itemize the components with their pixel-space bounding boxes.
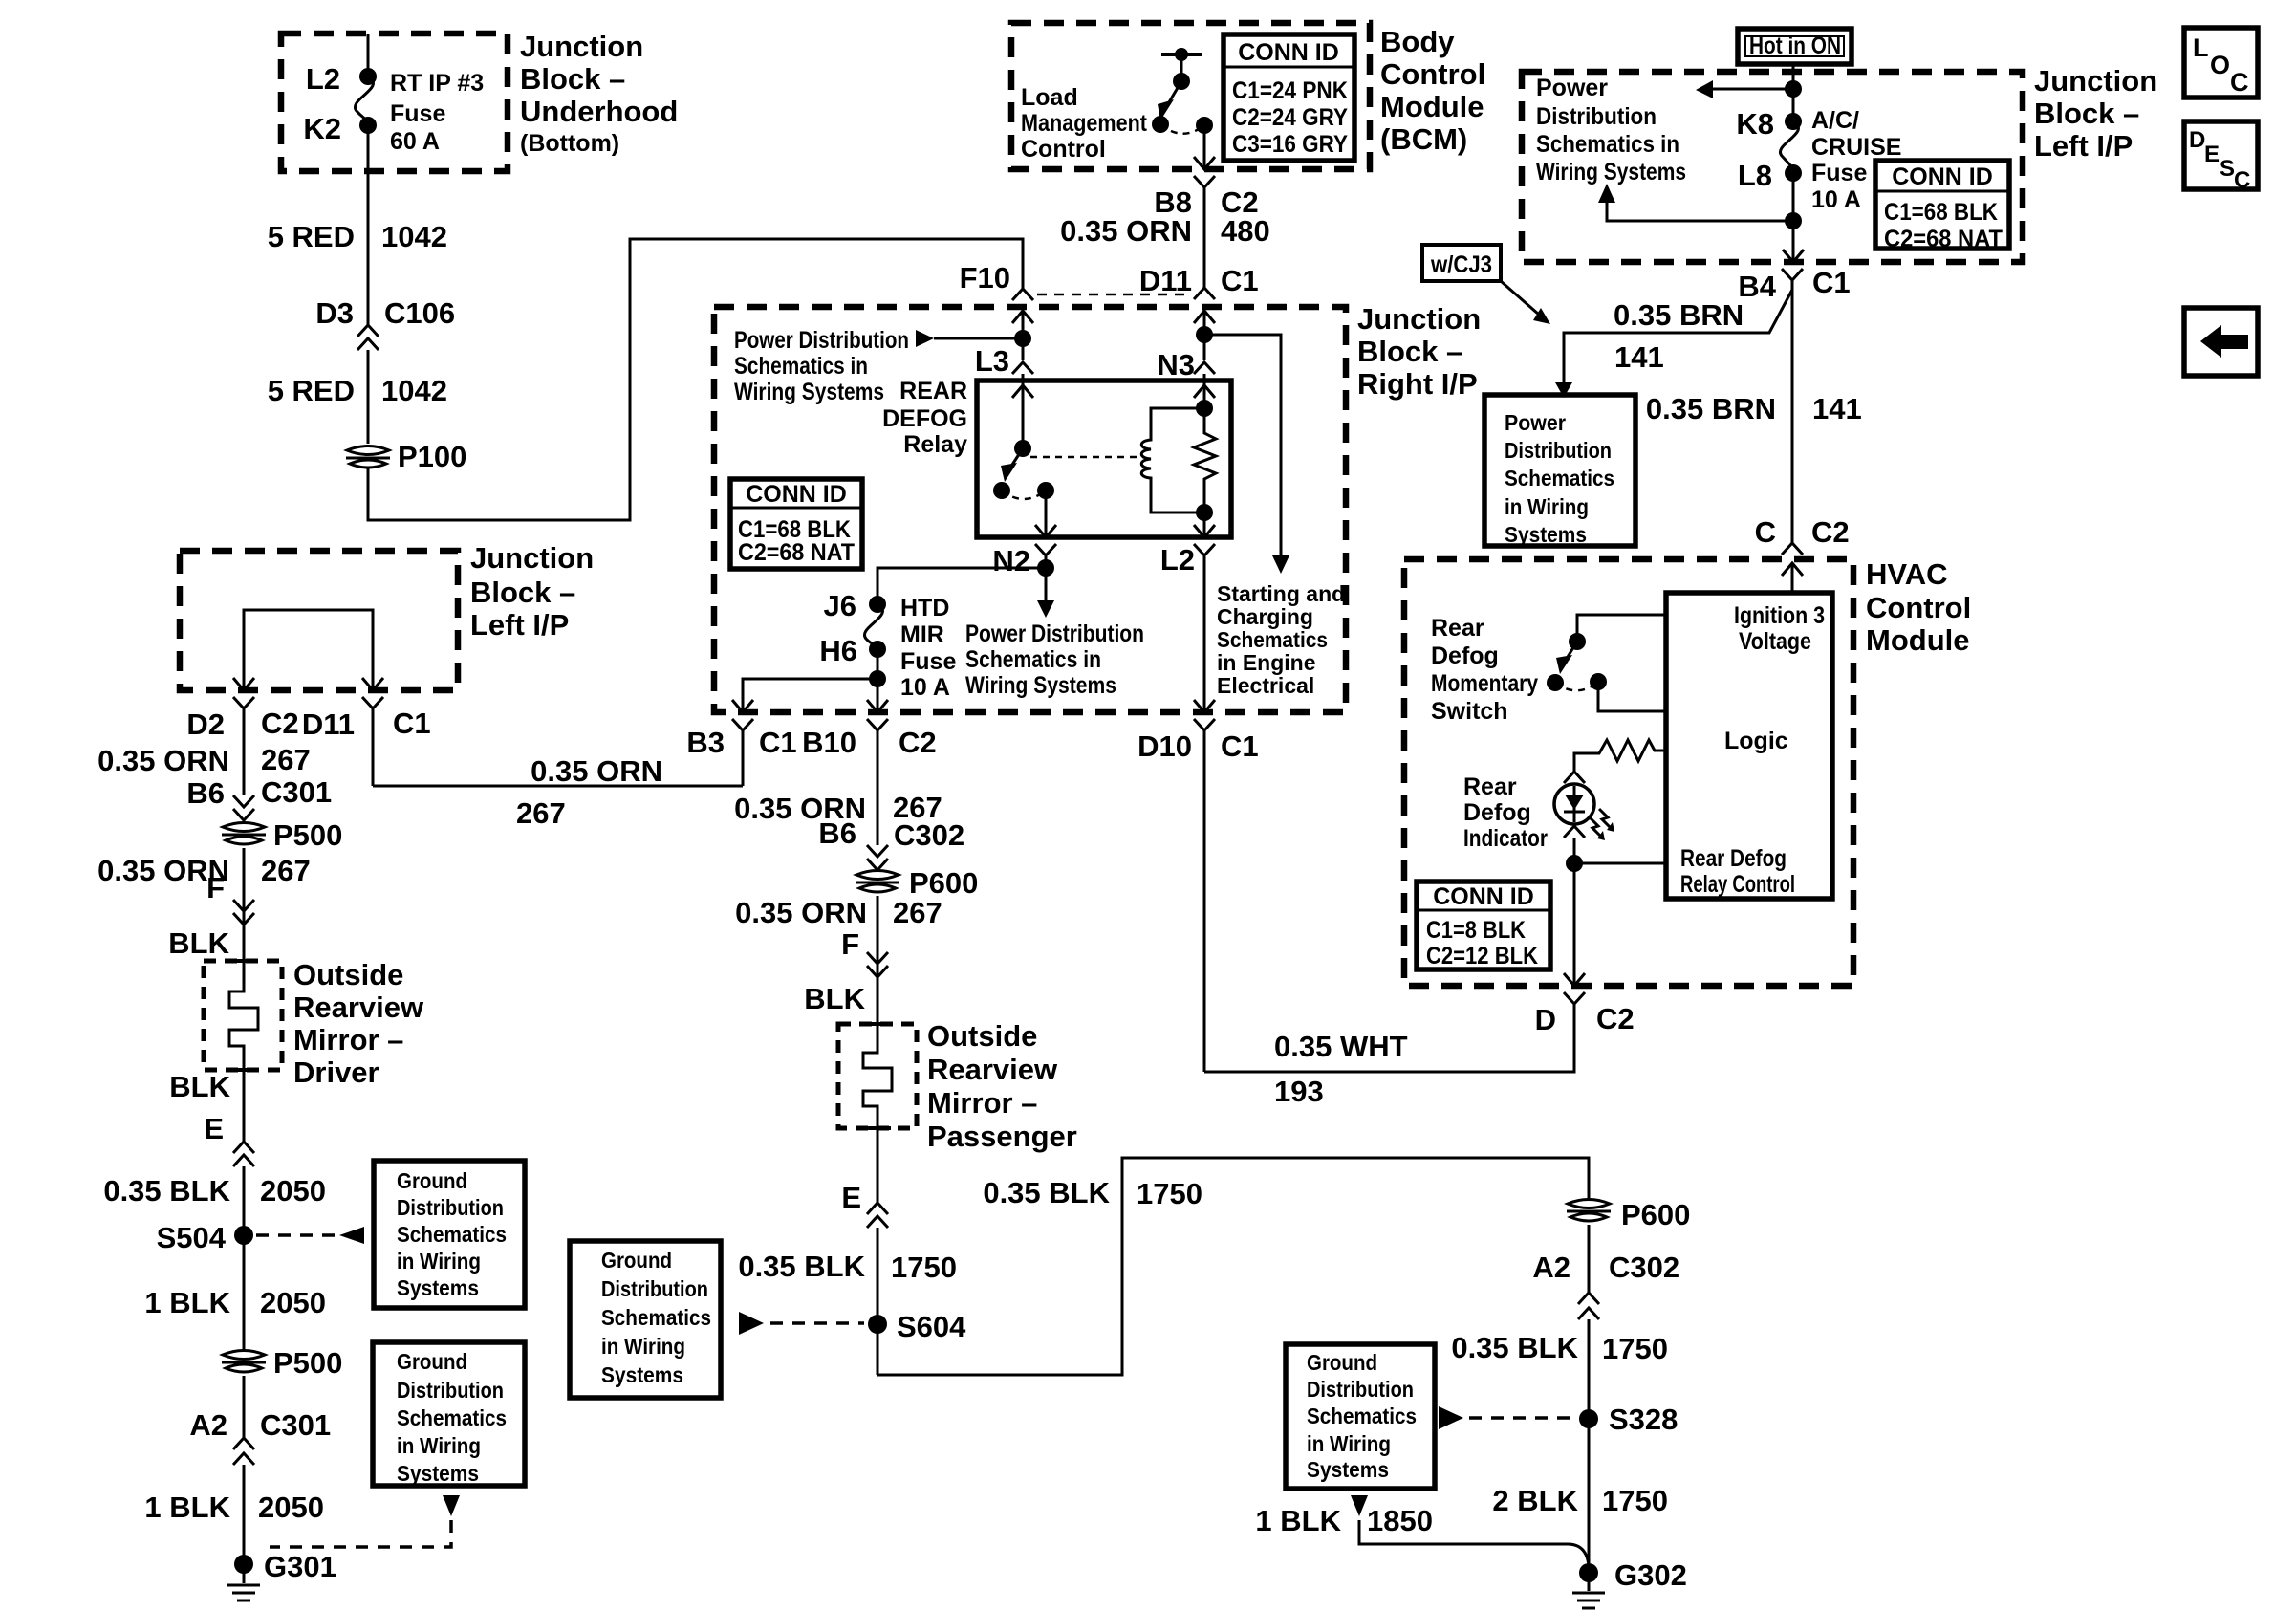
grommet P600	[856, 866, 978, 1024]
svg-text:Systems: Systems	[1307, 1457, 1389, 1482]
svg-text:Schematics in: Schematics in	[965, 646, 1101, 673]
svg-text:D: D	[1535, 1003, 1556, 1036]
svg-text:C1: C1	[759, 726, 797, 759]
svg-text:Underhood: Underhood	[520, 95, 678, 128]
svg-text:D2: D2	[186, 708, 225, 741]
svg-text:N3: N3	[1157, 348, 1195, 381]
svg-text:B6: B6	[818, 816, 856, 850]
title junction block right I/P	[1357, 302, 1481, 401]
grommet P100	[346, 440, 466, 473]
svg-text:Body: Body	[1380, 25, 1455, 58]
svg-text:Power Distribution: Power Distribution	[734, 327, 909, 354]
svg-text:0.35 BRN: 0.35 BRN	[1646, 392, 1776, 425]
wire 0.35 WHT 193	[1204, 1004, 1574, 1108]
connector B8/C2 fork	[1154, 176, 1258, 288]
svg-text:MIR: MIR	[900, 621, 944, 648]
connector A2/C301	[144, 1408, 331, 1564]
svg-text:267: 267	[261, 743, 311, 776]
svg-text:Logic: Logic	[1724, 728, 1788, 754]
w/CJ3 callout	[1422, 245, 1550, 324]
svg-text:Wiring Systems: Wiring Systems	[734, 379, 884, 405]
svg-text:Schematics: Schematics	[1505, 466, 1614, 490]
svg-text:0.35 ORN: 0.35 ORN	[1060, 214, 1192, 248]
connector B10/C2 below right IP	[802, 719, 937, 845]
hot in ON box	[1738, 29, 1852, 64]
svg-text:P500: P500	[273, 818, 342, 852]
svg-text:Hot in ON: Hot in ON	[1749, 33, 1841, 59]
fuse RT IP #3 60A	[303, 34, 484, 155]
svg-text:C1=24 PNK: C1=24 PNK	[1232, 77, 1348, 104]
splice S604	[739, 1310, 966, 1343]
svg-text:REAR: REAR	[899, 378, 967, 404]
svg-text:0.35 ORN: 0.35 ORN	[97, 744, 229, 777]
svg-text:CONN ID: CONN ID	[746, 481, 847, 508]
svg-text:Electrical: Electrical	[1217, 673, 1314, 698]
svg-text:C1: C1	[1221, 264, 1259, 297]
svg-text:S504: S504	[157, 1221, 227, 1254]
ground distribution box (S604)	[570, 1241, 721, 1398]
wire 0.35 BRN 141 branch to power dist box	[1555, 290, 1792, 398]
svg-text:E: E	[841, 1181, 861, 1214]
REAR DEFOG relay box	[882, 378, 1231, 537]
svg-text:K2: K2	[303, 112, 341, 145]
rear defog momentary switch	[1431, 615, 1666, 725]
svg-text:C1: C1	[1221, 729, 1259, 763]
svg-text:0.35 ORN: 0.35 ORN	[735, 896, 867, 929]
svg-text:C1: C1	[1812, 266, 1851, 299]
svg-text:BLK: BLK	[168, 926, 229, 960]
svg-text:RT IP #3: RT IP #3	[390, 70, 484, 97]
svg-text:C301: C301	[260, 1408, 331, 1442]
svg-text:L2: L2	[1160, 543, 1195, 577]
svg-text:in Wiring: in Wiring	[601, 1334, 685, 1359]
svg-text:10 A: 10 A	[1811, 186, 1861, 213]
svg-text:141: 141	[1614, 340, 1664, 374]
outside rearview mirror passenger dashed box	[838, 1019, 1077, 1153]
svg-text:C2: C2	[261, 707, 299, 740]
svg-text:A2: A2	[1532, 1251, 1570, 1284]
HTD MIR fuse chain	[732, 568, 1046, 712]
relay coil and resistor	[1141, 381, 1216, 537]
wire 0.35 BRN 141 down to HVAC	[1646, 280, 1862, 593]
wire 5 RED 1042 down from fuse	[268, 125, 447, 325]
svg-text:Schematics: Schematics	[1217, 627, 1328, 652]
splice S328	[1439, 1403, 1678, 1436]
svg-text:in Wiring: in Wiring	[1307, 1431, 1391, 1456]
L2 connector below relay	[1160, 543, 1215, 696]
branch with up arrow	[1598, 173, 1804, 262]
svg-text:Starting and: Starting and	[1217, 581, 1345, 606]
svg-text:Distribution: Distribution	[1307, 1377, 1414, 1402]
svg-text:Ground: Ground	[1307, 1350, 1377, 1375]
svg-text:Right I/P: Right I/P	[1357, 367, 1478, 401]
svg-text:141: 141	[1812, 392, 1862, 425]
svg-text:Fuse: Fuse	[900, 648, 956, 675]
svg-text:(BCM): (BCM)	[1380, 122, 1467, 156]
svg-text:H6: H6	[819, 634, 857, 667]
svg-text:Fuse: Fuse	[1811, 160, 1867, 186]
svg-text:F: F	[206, 871, 225, 904]
CONN ID table (right IP)	[730, 479, 862, 569]
connector C106 (D3) double chevron	[315, 296, 455, 350]
svg-text:Distribution: Distribution	[1536, 103, 1657, 130]
wire from hot in ON	[1696, 64, 1802, 121]
svg-text:E: E	[2204, 142, 2220, 167]
svg-text:Left I/P: Left I/P	[470, 608, 569, 642]
svg-text:5 RED: 5 RED	[268, 374, 355, 407]
F10 connector fork into Right IP	[960, 261, 1190, 360]
svg-text:in Wiring: in Wiring	[397, 1249, 481, 1274]
logic box	[1666, 593, 1832, 899]
svg-text:in Wiring: in Wiring	[1505, 494, 1589, 519]
labels 0.35 ORN 267 / B6 C302	[734, 791, 964, 870]
svg-text:P600: P600	[909, 866, 978, 900]
ground distribution box (S328)	[1286, 1344, 1435, 1516]
wire 0.35 ORN 267 long horizontal to B3	[373, 754, 743, 830]
svg-text:2 BLK: 2 BLK	[1492, 1484, 1578, 1517]
svg-text:Schematics: Schematics	[601, 1305, 711, 1330]
svg-text:Relay: Relay	[903, 431, 967, 458]
svg-text:Mirror –: Mirror –	[927, 1086, 1037, 1120]
svg-text:D3: D3	[315, 296, 354, 330]
power distribution text (left IP)	[1536, 75, 1686, 185]
svg-text:Distribution: Distribution	[601, 1276, 708, 1301]
svg-text:Rear: Rear	[1431, 615, 1484, 642]
labels below P600	[735, 896, 942, 1015]
svg-text:1042: 1042	[381, 220, 447, 253]
svg-text:C1: C1	[393, 707, 431, 740]
svg-text:C2=68 NAT: C2=68 NAT	[738, 539, 855, 566]
connector D11/C1 fork into Right IP	[1194, 288, 1215, 359]
svg-text:Junction: Junction	[520, 30, 643, 63]
branch to starting and charging	[1204, 335, 1345, 698]
connector D11/C1 (left IP)	[302, 697, 431, 786]
LOC icon	[2184, 28, 2258, 98]
svg-text:1750: 1750	[1137, 1177, 1202, 1210]
grommet P500	[222, 818, 342, 961]
driver column labels 0.35 ORN 267 / B6 C301	[97, 743, 332, 820]
svg-text:B6: B6	[186, 776, 225, 810]
svg-text:C: C	[2230, 68, 2249, 97]
svg-text:Left I/P: Left I/P	[2034, 129, 2133, 163]
svg-text:Outside: Outside	[293, 958, 403, 991]
svg-text:2050: 2050	[260, 1174, 326, 1208]
svg-text:C2: C2	[1596, 1002, 1635, 1035]
BCM dashed box	[1011, 23, 1370, 169]
svg-text:Ground: Ground	[397, 1349, 467, 1374]
svg-text:Schematics: Schematics	[397, 1405, 507, 1430]
svg-text:O: O	[2210, 51, 2230, 79]
svg-text:1 BLK: 1 BLK	[1255, 1504, 1341, 1537]
labels 0.35 ORN 267 F below P500	[97, 854, 311, 960]
svg-text:Block –: Block –	[470, 576, 575, 609]
connector D2/C2	[186, 697, 298, 795]
svg-text:S328: S328	[1609, 1403, 1678, 1436]
connector D/C2 exit	[1535, 973, 1635, 1036]
svg-text:Fuse: Fuse	[390, 100, 445, 127]
svg-text:60 A: 60 A	[390, 128, 440, 155]
wire S604 to right column riser	[877, 1158, 1589, 1375]
power distribution schematics box	[1484, 395, 1635, 547]
svg-text:Relay Control: Relay Control	[1680, 871, 1795, 898]
svg-text:Mirror –: Mirror –	[293, 1023, 403, 1056]
svg-text:Junction: Junction	[470, 541, 594, 575]
connector D10/C1 below right IP	[1137, 696, 1259, 1072]
svg-text:B3: B3	[686, 726, 725, 759]
title Junction Block Underhood (Bottom)	[520, 30, 678, 157]
svg-text:1042: 1042	[381, 374, 447, 407]
svg-text:C302: C302	[894, 818, 964, 852]
svg-text:2050: 2050	[258, 1491, 324, 1524]
junction block underhood dashed box	[281, 33, 508, 171]
svg-text:L: L	[2193, 33, 2209, 62]
svg-text:D10: D10	[1137, 729, 1192, 763]
CONN ID table (BCM)	[1224, 34, 1354, 161]
svg-text:C2: C2	[1811, 515, 1850, 549]
ground distribution box (G301)	[270, 1342, 525, 1547]
svg-text:Rearview: Rearview	[927, 1053, 1058, 1086]
power distribution pointer (upper left in box)	[734, 327, 1031, 405]
svg-text:Passenger: Passenger	[927, 1120, 1077, 1153]
wire from P100 to F10	[368, 239, 1023, 520]
connector A2/C302	[1451, 1251, 1679, 1573]
svg-text:Outside: Outside	[927, 1019, 1037, 1053]
wire 5 RED 1042 lower	[268, 350, 447, 444]
fuse A/C CRUISE 10A	[1736, 107, 1901, 213]
svg-text:DEFOG: DEFOG	[882, 405, 967, 432]
wire 1 BLK 1850	[1255, 1504, 1589, 1566]
svg-text:Power: Power	[1505, 410, 1566, 435]
svg-text:F10: F10	[960, 261, 1010, 294]
svg-text:F: F	[841, 927, 859, 961]
svg-text:193: 193	[1274, 1075, 1324, 1108]
svg-text:B10: B10	[802, 726, 856, 759]
svg-text:Junction: Junction	[2034, 64, 2157, 98]
svg-text:S: S	[2220, 156, 2235, 182]
svg-text:1 BLK: 1 BLK	[144, 1286, 230, 1319]
title junction block left I/P	[2034, 64, 2157, 163]
svg-text:B4: B4	[1738, 270, 1776, 303]
svg-text:L3: L3	[975, 344, 1009, 378]
resistor and rear defog indicator	[1463, 740, 1666, 986]
svg-text:C3=16 GRY: C3=16 GRY	[1232, 131, 1348, 158]
svg-text:Switch: Switch	[1431, 698, 1508, 725]
svg-text:CRUISE: CRUISE	[1811, 134, 1901, 161]
svg-text:Block –: Block –	[1357, 335, 1462, 368]
svg-text:Defog: Defog	[1463, 799, 1531, 826]
svg-text:1750: 1750	[1602, 1332, 1668, 1365]
svg-text:Schematics: Schematics	[1307, 1404, 1417, 1428]
svg-text:HVAC: HVAC	[1866, 557, 1948, 591]
wire D11 to relay, N3 connector	[1157, 311, 1215, 381]
svg-text:1750: 1750	[891, 1251, 957, 1284]
svg-text:CONN ID: CONN ID	[1892, 163, 1993, 190]
BCM exit wire B8	[1194, 125, 1215, 169]
svg-text:CONN ID: CONN ID	[1238, 39, 1339, 66]
CONN ID table (HVAC)	[1417, 882, 1550, 969]
svg-text:Module: Module	[1380, 90, 1484, 123]
svg-text:C302: C302	[1609, 1251, 1679, 1284]
load management control switch	[1021, 48, 1213, 163]
svg-text:Schematics: Schematics	[397, 1222, 507, 1247]
svg-text:P100: P100	[398, 440, 466, 473]
svg-text:Schematics in: Schematics in	[734, 353, 868, 380]
svg-text:0.35 BLK: 0.35 BLK	[1451, 1331, 1578, 1364]
ground G301	[227, 1550, 336, 1600]
svg-text:L2: L2	[306, 62, 340, 96]
svg-text:Wiring Systems: Wiring Systems	[1536, 159, 1686, 185]
svg-text:1850: 1850	[1367, 1504, 1433, 1537]
svg-text:Power Distribution: Power Distribution	[965, 620, 1144, 647]
svg-text:S604: S604	[897, 1310, 966, 1343]
svg-text:in Wiring: in Wiring	[397, 1433, 481, 1458]
svg-text:Ground: Ground	[397, 1168, 467, 1193]
svg-text:P500: P500	[273, 1346, 342, 1380]
junction block left I/P dashed box	[1522, 72, 2023, 262]
svg-text:Module: Module	[1866, 623, 1970, 657]
svg-text:267: 267	[893, 896, 942, 929]
svg-text:C: C	[1755, 515, 1776, 549]
HVAC dashed box	[1404, 559, 1853, 986]
svg-text:CONN ID: CONN ID	[1433, 883, 1534, 910]
svg-text:0.35 BLK: 0.35 BLK	[983, 1176, 1110, 1209]
svg-text:1 BLK: 1 BLK	[144, 1491, 230, 1524]
label 2 BLK 1750	[1492, 1484, 1668, 1517]
title Body Control Module (BCM)	[1380, 25, 1485, 156]
svg-text:Rear: Rear	[1463, 773, 1517, 800]
svg-text:K8: K8	[1736, 107, 1774, 141]
svg-text:Defog: Defog	[1431, 642, 1499, 669]
svg-text:Charging: Charging	[1217, 604, 1313, 629]
svg-text:5 RED: 5 RED	[268, 220, 355, 253]
svg-text:in Engine: in Engine	[1217, 650, 1316, 675]
wire below driver mirror	[103, 1070, 326, 1351]
svg-text:Block –: Block –	[2034, 97, 2139, 130]
connector B3/C1 below right IP	[686, 719, 796, 786]
outside rearview mirror driver dashed box	[204, 958, 424, 1089]
svg-text:HTD: HTD	[900, 595, 949, 621]
svg-text:Block –: Block –	[520, 62, 625, 96]
heater element driver	[229, 961, 258, 1070]
svg-text:0.35 WHT: 0.35 WHT	[1274, 1030, 1408, 1063]
svg-text:Momentary: Momentary	[1431, 670, 1538, 697]
svg-text:Voltage: Voltage	[1739, 628, 1811, 655]
svg-text:L8: L8	[1738, 159, 1772, 192]
svg-text:267: 267	[261, 854, 311, 887]
svg-text:C2=24 GRY: C2=24 GRY	[1232, 104, 1348, 131]
svg-text:Control: Control	[1866, 591, 1971, 624]
svg-text:Systems: Systems	[397, 1275, 479, 1300]
svg-text:2050: 2050	[260, 1286, 326, 1319]
label 1 BLK 2050	[144, 1286, 326, 1319]
svg-text:Rear Defog: Rear Defog	[1680, 845, 1787, 872]
svg-text:C106: C106	[384, 296, 455, 330]
svg-text:(Bottom): (Bottom)	[520, 130, 619, 157]
ground distribution box (S504)	[374, 1161, 525, 1308]
svg-text:Distribution: Distribution	[1505, 438, 1612, 463]
N2 connector below relay	[965, 544, 1144, 699]
wire F10 to relay, L3 connector	[975, 311, 1033, 381]
svg-text:A/C/: A/C/	[1811, 107, 1859, 134]
svg-text:Junction: Junction	[1357, 302, 1481, 336]
svg-text:Wiring Systems: Wiring Systems	[965, 672, 1116, 699]
internal bus wire	[233, 610, 383, 690]
svg-text:G302: G302	[1614, 1558, 1687, 1592]
svg-text:w/CJ3: w/CJ3	[1430, 251, 1492, 278]
svg-text:C2=12 BLK: C2=12 BLK	[1426, 943, 1538, 969]
svg-text:Driver: Driver	[293, 1056, 379, 1089]
junction block left I/P dashed box (left)	[180, 551, 458, 690]
svg-text:Systems: Systems	[397, 1461, 479, 1486]
svg-text:D11: D11	[1139, 264, 1192, 297]
svg-text:Ground: Ground	[601, 1248, 672, 1273]
svg-text:E: E	[204, 1112, 224, 1145]
grommet P600 (right)	[1567, 1198, 1690, 1293]
svg-text:10 A: 10 A	[900, 674, 950, 701]
svg-text:Rearview: Rearview	[293, 991, 424, 1024]
svg-text:C2=68 NAT: C2=68 NAT	[1884, 226, 2003, 252]
svg-text:Distribution: Distribution	[397, 1195, 504, 1220]
wire below passenger mirror	[738, 1128, 957, 1375]
svg-text:Systems: Systems	[601, 1362, 683, 1387]
back arrow icon	[2184, 308, 2258, 376]
svg-text:Distribution: Distribution	[397, 1378, 504, 1403]
svg-text:J6: J6	[824, 589, 856, 622]
svg-text:1750: 1750	[1602, 1484, 1668, 1517]
svg-text:G301: G301	[264, 1550, 336, 1583]
CONN ID table (left IP)	[1875, 161, 2009, 252]
svg-text:A2: A2	[189, 1408, 227, 1442]
svg-text:D11: D11	[302, 708, 355, 741]
title	[1866, 557, 1971, 657]
splice S504	[157, 1221, 364, 1254]
DESC icon	[2184, 121, 2258, 193]
svg-text:267: 267	[516, 796, 566, 830]
svg-text:C: C	[2234, 167, 2250, 193]
svg-text:C2: C2	[899, 726, 937, 759]
svg-text:480: 480	[1221, 214, 1270, 248]
svg-text:0.35 BLK: 0.35 BLK	[738, 1250, 865, 1283]
svg-text:D: D	[2189, 127, 2205, 153]
svg-text:N2: N2	[992, 544, 1030, 577]
svg-text:BLK: BLK	[169, 1070, 230, 1103]
svg-text:Control: Control	[1021, 136, 1106, 163]
svg-text:0.35 ORN: 0.35 ORN	[531, 754, 662, 788]
svg-text:C301: C301	[261, 775, 332, 809]
svg-text:C1=8 BLK: C1=8 BLK	[1426, 917, 1526, 944]
title	[470, 541, 594, 642]
svg-text:Load: Load	[1021, 84, 1078, 111]
svg-text:Systems: Systems	[1505, 522, 1587, 547]
svg-text:Management: Management	[1021, 110, 1148, 137]
junction block right I/P dashed box	[714, 307, 1346, 712]
svg-text:0.35 BRN: 0.35 BRN	[1614, 298, 1744, 332]
svg-text:C1=68 BLK: C1=68 BLK	[1884, 199, 1998, 226]
heater element passenger	[863, 1024, 892, 1128]
svg-text:BLK: BLK	[804, 982, 865, 1015]
connector B4/C1 fork	[1738, 266, 1850, 303]
wire 0.35 ORN 480	[1060, 214, 1270, 297]
svg-text:Ignition 3: Ignition 3	[1734, 602, 1825, 629]
relay switch	[993, 381, 1143, 537]
svg-text:Schematics in: Schematics in	[1536, 131, 1679, 158]
svg-text:0.35 BLK: 0.35 BLK	[103, 1174, 230, 1208]
grommet P500 (lower)	[222, 1346, 342, 1438]
ground G302	[1572, 1558, 1687, 1608]
svg-text:Indicator: Indicator	[1463, 825, 1548, 852]
svg-text:Power: Power	[1536, 75, 1608, 101]
svg-text:Control: Control	[1380, 57, 1485, 91]
